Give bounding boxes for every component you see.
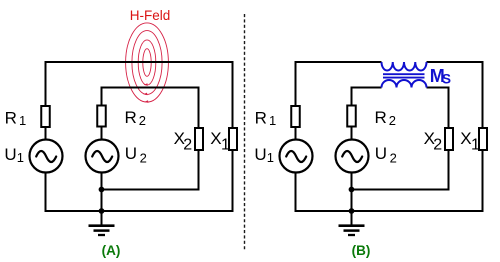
svg-text:2: 2 xyxy=(389,113,396,128)
H-field line ellipse 3 xyxy=(138,40,156,85)
svg-text:R: R xyxy=(5,108,17,127)
svg-text:1: 1 xyxy=(267,150,274,165)
svg-text:2: 2 xyxy=(139,113,146,128)
svg-text:1: 1 xyxy=(221,137,230,154)
reactance X2 (B) xyxy=(445,128,453,150)
inductor primary coil (B, top) xyxy=(382,62,427,70)
H-field arrow on ellipse 2 xyxy=(143,93,147,96)
wire B ground branch from inner loop to outer loop xyxy=(351,190,353,212)
svg-text:1: 1 xyxy=(471,137,480,154)
resistor R1 (B) xyxy=(291,106,300,127)
ground (A) xyxy=(89,211,115,235)
svg-text:R: R xyxy=(125,108,137,127)
wire B inner loop with gap for secondary coil xyxy=(352,88,449,190)
wire A inner loop (top, right, bottom, left) xyxy=(102,88,199,190)
resistor R2 (B) xyxy=(347,106,356,127)
svg-text:1: 1 xyxy=(17,150,24,165)
source U1 (B) xyxy=(280,140,313,173)
svg-text:H-Feld: H-Feld xyxy=(130,8,171,23)
svg-text:S: S xyxy=(442,72,451,87)
svg-text:1: 1 xyxy=(19,113,26,128)
svg-text:U: U xyxy=(4,145,16,164)
source U2 (B) xyxy=(336,140,369,173)
H-field line ellipse 2 xyxy=(132,31,162,95)
svg-text:1: 1 xyxy=(269,113,276,128)
junction node dot (A, outer bottom) xyxy=(99,208,105,214)
inductor secondary coil (B, bottom) xyxy=(382,80,427,88)
divider dashed line between circuit A and B xyxy=(244,14,246,251)
junction node dot (A, inner bottom) xyxy=(99,187,105,193)
H-field arrow on ellipse 1 xyxy=(144,100,148,103)
transformer core lines (B) xyxy=(383,73,425,75)
junction node dot (B, inner bottom) xyxy=(349,187,355,193)
resistor R2 (A) xyxy=(97,106,106,127)
reactance X2 (A) xyxy=(195,128,203,150)
svg-text:2: 2 xyxy=(183,137,192,154)
svg-text:2: 2 xyxy=(140,151,147,166)
svg-text:(B): (B) xyxy=(352,243,371,258)
svg-text:(A): (A) xyxy=(102,243,121,258)
wire B outer loop with gap for primary coil xyxy=(296,62,483,211)
svg-text:R: R xyxy=(375,108,387,127)
ground (B) xyxy=(339,211,365,235)
wire A outer loop (top, right, bottom, left) xyxy=(46,62,233,211)
junction node dot (B, outer bottom) xyxy=(349,208,355,214)
svg-text:U: U xyxy=(125,144,137,163)
svg-text:2: 2 xyxy=(390,151,397,166)
svg-text:U: U xyxy=(375,144,387,163)
wire A ground branch from inner loop to outer loop xyxy=(101,190,103,212)
H-field line ellipse 4 (innermost) xyxy=(143,49,151,77)
svg-text:X: X xyxy=(460,129,471,148)
svg-text:U: U xyxy=(254,145,266,164)
svg-text:2: 2 xyxy=(433,137,442,154)
H-field arrow on ellipse 3 xyxy=(144,83,148,86)
svg-text:R: R xyxy=(255,108,267,127)
H-field line ellipse 1 (outermost) xyxy=(126,23,169,102)
resistor R1 (A) xyxy=(41,106,50,127)
svg-text:X: X xyxy=(210,129,221,148)
reactance X1 (B) xyxy=(479,128,487,150)
source U2 (A) xyxy=(86,140,119,173)
reactance X1 (A) xyxy=(229,128,237,150)
source U1 (A) xyxy=(30,140,63,173)
